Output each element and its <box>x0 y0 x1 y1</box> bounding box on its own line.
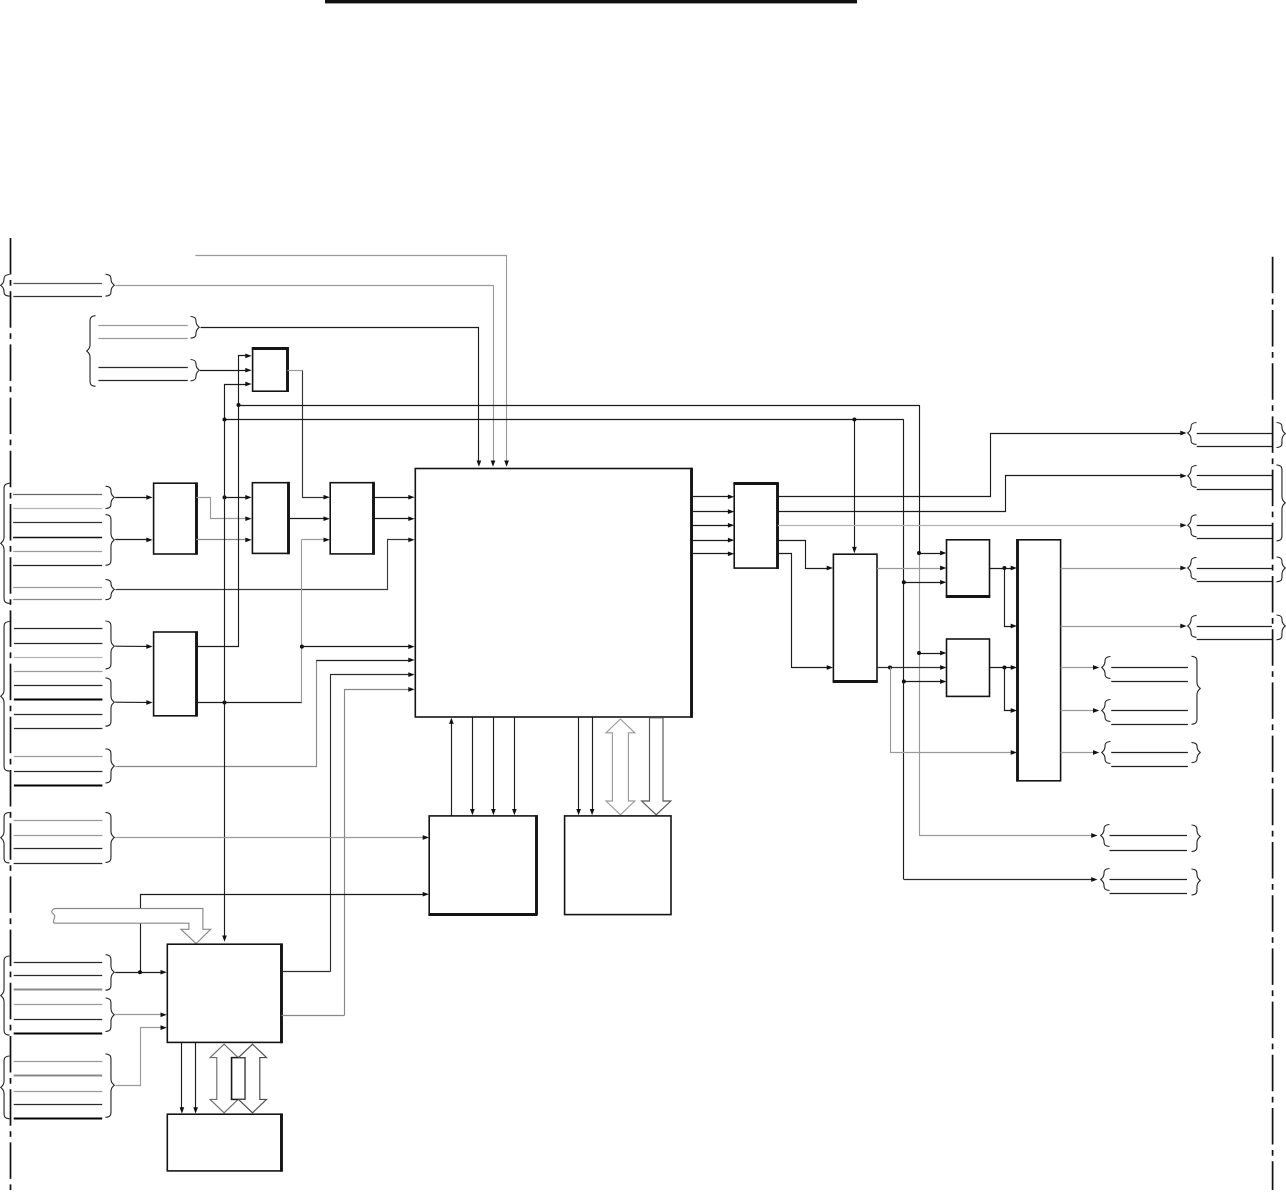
connector group CN-D extra thick wire <box>14 785 103 787</box>
wire: record sw riser to main in7 (gray) <box>345 690 410 1016</box>
wire: riser B branch to demod in1 <box>225 497 248 499</box>
arrow into main block in5 <box>408 658 414 663</box>
arrow into main block in1 <box>408 495 414 500</box>
wire: rail405 tail to G9 (gray) <box>919 835 1092 837</box>
junction dot rail419/drum feed <box>852 418 856 422</box>
motor group G7 wires <box>1111 710 1188 712</box>
connector group CN-C wires <box>13 494 102 496</box>
block: mode select <box>429 816 536 915</box>
wire: CN-B2 to reset block <box>200 370 246 372</box>
wire: main block to servo ctl out5 <box>692 553 730 555</box>
connector group CN-G closing brace <box>106 1054 115 1118</box>
connector group CN-A closing brace <box>106 274 115 296</box>
motor group G8 open brace <box>1102 742 1111 764</box>
wire: CN-D3 to riser (gray) <box>116 661 317 767</box>
junction dot capstan branch <box>1002 666 1006 670</box>
connector group CN-C sub brace 3 <box>106 579 115 599</box>
arrow into timer block in1 <box>146 644 152 649</box>
output group G3 wires <box>1197 525 1272 527</box>
wire: timer out2 <box>197 702 302 704</box>
wire: gray riser to key block in3 <box>302 539 325 541</box>
arrow to output group G4 <box>1180 566 1186 571</box>
connector group CN-F outer brace <box>1 956 10 1035</box>
bus arrow: main->data (hollow single) <box>642 718 671 815</box>
connector group CN-A outer brace <box>1 275 10 297</box>
arrow to motor group G6 <box>1093 665 1099 670</box>
wire: tuner out1 jog to demod (gray) <box>197 498 248 519</box>
junction dot riserB/timer out2 <box>223 701 227 705</box>
output group G4 open brace <box>1188 557 1197 579</box>
arrow to output group G1 <box>1180 431 1186 436</box>
block: tuner / timer <box>154 483 197 554</box>
wire: riser B long drop <box>224 420 226 937</box>
bus arrow: mech<->motor right (double) <box>239 1044 267 1113</box>
wire: CN-C2 to tuner block <box>115 539 147 541</box>
arrow into demod in2 <box>245 516 251 521</box>
wire: mech out1 riser (to main in6) <box>282 971 331 973</box>
wire: driver out3 to G6 (gray) <box>1061 667 1094 669</box>
wire: capstan branch drop <box>1005 668 1013 711</box>
wire: mechacon out1 to loading driver (gray) <box>877 568 942 570</box>
wire: CN-C3 long line to main block (y=589.5) <box>116 540 410 590</box>
output groups G2+G3 close brace <box>1277 465 1286 541</box>
connector group CN-E outer brace <box>1 812 10 863</box>
connector group CN-B wires <box>98 325 187 327</box>
wire: CN-D1 to timer block <box>115 645 147 647</box>
output group G4 close brace <box>1277 557 1286 582</box>
arrow into mech block in2 <box>161 1012 167 1017</box>
wire: rail419 branch to capstan drv in3 <box>904 681 942 683</box>
block: motor / solenoid <box>167 1114 281 1171</box>
title underline <box>325 0 857 3</box>
arrow into mode block top 3 <box>512 809 517 815</box>
connector group CN-F sub brace 2 <box>106 998 115 1032</box>
output group G2 wires <box>1197 475 1272 477</box>
arrow into loading drv in2 <box>940 566 946 571</box>
wire: rail419 branch to loading drv in3 <box>904 582 942 584</box>
wire: mechacon out2 to capstan driver <box>877 667 942 669</box>
arrow into reset block in2 <box>245 368 251 373</box>
connector group CN-A wires <box>13 283 102 285</box>
arrow into driver block in2 <box>1011 624 1017 629</box>
connector group CN-C sub brace 1 <box>106 486 115 508</box>
sensor group G9 close brace <box>1192 825 1201 852</box>
rail 405 drop gray tail <box>919 553 921 836</box>
output group G4 wires <box>1197 568 1272 570</box>
wire: CN-C1 to tuner block <box>115 497 147 499</box>
rail 419 drop at right <box>903 420 905 880</box>
wire: servo out1 to right corner <box>778 434 1182 497</box>
junction dot loading branch <box>1002 566 1006 570</box>
wire: boxA output up into main block <box>451 723 453 816</box>
wire: CN-D2 to timer block <box>115 701 147 703</box>
block: system control microprocessor <box>415 469 692 718</box>
junction dot riserB/demod feed <box>223 495 227 499</box>
arrow to sensor group G9 <box>1091 833 1097 838</box>
wire: branch drop to drum block (gray) <box>891 668 1013 753</box>
arrow into mech block in3 <box>161 1025 167 1030</box>
junction dot mechacon out2 branch <box>888 666 892 670</box>
wire: riser B to reset block in3 <box>225 385 246 420</box>
wire: driver out2 to G5 (gray) <box>1061 626 1181 628</box>
arrow into servo ctl in2 <box>728 509 734 514</box>
arrow into tuner block in1 <box>146 495 152 500</box>
bus arrow: main<->data (gray double) <box>606 719 635 815</box>
wire: CN-B1 to main block top <box>201 328 479 462</box>
wire: main block down to data block 2 <box>592 717 594 811</box>
wire: driver out5 to G8 (gray) <box>1061 752 1094 754</box>
connector group CN-D sub brace 1 <box>106 621 115 669</box>
wire: branch to main block in4 <box>302 646 410 648</box>
motor groups G6+G7 close brace <box>1192 656 1201 724</box>
block: reset IC <box>253 348 288 391</box>
arrow into main block in3 <box>408 537 414 542</box>
arrow into key block in2 <box>324 516 330 521</box>
arrow into mode block top 1 <box>470 809 475 815</box>
wire: CN-F2 to mech block (gray) <box>115 1014 161 1016</box>
wire: key block out2 to main block <box>374 518 410 520</box>
wire: CN-F1 to mech block <box>115 972 161 974</box>
output group G5 close brace <box>1277 615 1286 640</box>
arrow into demod in3 <box>245 538 251 543</box>
arrow into main block top (285 line) <box>491 461 496 467</box>
arrow into motor block 1 <box>180 1107 185 1113</box>
block: demodulator <box>252 483 288 554</box>
arrow into main block top (255 line) <box>504 461 509 467</box>
arrow into mechacon in2 <box>827 665 833 670</box>
arrow into demod in1 <box>245 495 251 500</box>
arrow into capstan drv in2 <box>940 665 946 670</box>
arrow into driver block in5 <box>1011 750 1017 755</box>
junction dot rail405/loading <box>917 551 921 555</box>
arrow into capstan drv in1 <box>940 651 946 656</box>
wire: main block to servo ctl out2 <box>692 511 730 513</box>
output group G1 wires <box>1197 433 1272 435</box>
wire: reset block output (gray) <box>288 370 303 372</box>
arrow into mode block top 2 <box>491 809 496 815</box>
output group G5 open brace <box>1188 615 1197 637</box>
arrow into key block in1 <box>324 495 330 500</box>
block: data memory <box>565 816 671 915</box>
wire: connector rail to mode block (gray, y=837.5) <box>115 837 424 839</box>
wire: driver out1 to G4 (gray) <box>1061 568 1181 570</box>
arrow into main block in2 <box>408 516 414 521</box>
arrow into data block top 2 <box>590 809 595 815</box>
wire: servo out2 to right corner <box>778 476 1182 512</box>
connector group CN-B sub brace 1 <box>191 317 200 339</box>
connector group CN-D wires <box>14 628 103 630</box>
sensor group G10 close brace <box>1192 869 1201 895</box>
wire: riser A to reset block in1 <box>239 356 246 406</box>
arrow to sensor group G10 <box>1091 877 1097 882</box>
arrow into mechacon top <box>852 547 857 553</box>
left page border (dash-dot) <box>10 238 12 1193</box>
block: motor drive output <box>1017 540 1060 781</box>
junction dot rail405/capstan <box>917 651 921 655</box>
arrow into driver block in4 <box>1011 708 1017 713</box>
wire: loading drv to driver block <box>990 568 1013 570</box>
motor group G6 wires <box>1111 667 1188 669</box>
arrow into mechacon in1 <box>827 566 833 571</box>
sensor group G10 open brace <box>1101 869 1110 891</box>
wire: rail405 branch to loading drv in1 <box>919 553 942 555</box>
wire: unterminated gray feed (y=255.5) <box>196 256 507 462</box>
sensor group G9 open brace <box>1101 825 1110 847</box>
output group G2 open brace <box>1188 465 1197 487</box>
motor group G7 open brace <box>1102 700 1111 722</box>
arrow into main block in6 <box>408 672 414 677</box>
wire: mech to motor block 2 <box>195 1042 197 1108</box>
arrow up into main block bottom <box>449 718 454 724</box>
block: servo control <box>734 484 778 569</box>
connector group CN-E closing brace <box>106 812 115 862</box>
arrow into mode block in2 <box>423 892 429 897</box>
arrow into main block top (327 line) <box>477 461 482 467</box>
junction dot rail419/riserB <box>223 418 227 422</box>
arrow into tuner block in2 <box>146 538 152 543</box>
sensor group G9 wires <box>1110 835 1188 837</box>
arrow to output group G2 <box>1180 474 1186 479</box>
wire: rail405 branch to capstan drv in1 <box>919 653 942 655</box>
rail: servo control (y=405) <box>239 405 920 407</box>
wire: demod to key block <box>288 518 324 520</box>
block: mechanism control <box>167 944 281 1042</box>
wire: drop into mechacon block top <box>854 420 856 550</box>
arrow into servo ctl in5 <box>728 551 734 556</box>
arrow to motor group G8 <box>1093 750 1099 755</box>
junction dot rail405/riserA <box>237 403 241 407</box>
arrow into servo ctl in4 <box>728 538 734 543</box>
connector group CN-D sub brace 3 <box>106 749 115 783</box>
wire: capstan drv to driver block <box>990 667 1013 669</box>
junction dot rail419/loading <box>902 580 906 584</box>
wire: gray riser x=302 <box>301 540 303 703</box>
junction dot CN-F1 / mode rail <box>138 970 142 974</box>
arrow into loading drv in3 <box>940 580 946 585</box>
arrow into driver block in3 <box>1011 665 1017 670</box>
wire: reset output drop to key block <box>303 371 325 498</box>
arrow to motor group G7 <box>1093 708 1099 713</box>
arrow into timer block in2 <box>146 700 152 705</box>
connector group CN-G wires <box>14 1061 103 1063</box>
wire: rail419 tail to G10 <box>904 879 1092 881</box>
arrow to output group G3 <box>1180 523 1186 528</box>
connector group CN-E wires <box>14 820 103 822</box>
bus shaft: mech<->motor middle <box>232 1058 246 1100</box>
motor group G6 open brace <box>1102 657 1111 679</box>
arrow into motor block 2 <box>193 1107 198 1113</box>
block: key input <box>330 483 374 554</box>
wire: mech out2 riser (to main in7, gray) <box>282 1015 345 1017</box>
wire: long black rail to mode block (y=894.2) <box>141 895 425 973</box>
wire: servo out4 jog to mechacon <box>778 541 829 569</box>
wire: main block down to mode block 3 <box>514 717 516 811</box>
wire: CN-A to video block (gray) <box>116 286 494 462</box>
wire: key block out1 to main block <box>374 497 410 499</box>
wire: servo out3 gray long line <box>778 525 1181 527</box>
wire: tuner out2 to demod (gray) <box>196 539 247 541</box>
arrow into servo ctl in1 <box>728 494 734 499</box>
arrow into mech block in1 <box>161 970 167 975</box>
connector group CN-C outer brace <box>1 483 10 603</box>
output group G5 wires <box>1197 626 1272 628</box>
connector group CN-B outer brace <box>87 316 96 387</box>
wire: main block to servo ctl out3 <box>692 525 730 527</box>
arrow into capstan drv in3 <box>940 679 946 684</box>
connector group CN-B sub brace 2 <box>191 360 200 381</box>
motor group G8 wires <box>1111 752 1188 754</box>
wire: main block to servo ctl out1 <box>692 496 730 498</box>
arrow into reset block in3 <box>245 382 251 387</box>
bus arrow: mech<->motor left (gray double) <box>210 1044 238 1113</box>
wire: timer out1 to riser A <box>197 406 239 647</box>
block: mechacon <box>833 554 877 681</box>
arrow into reset block in1 <box>245 354 251 359</box>
connector group CN-D outer brace <box>1 622 10 772</box>
wire: CN-G to mech block in3 (gray) <box>116 1028 162 1086</box>
wire: riser into main block in5 <box>316 660 409 662</box>
arrow into mode block in1 <box>423 835 429 840</box>
rail: system control (y=419.5) <box>225 419 904 421</box>
wire: mech to motor block 1 <box>181 1042 183 1108</box>
wire: main block down to mode block 1 <box>472 717 474 811</box>
arrow into key block in3 <box>324 537 330 542</box>
connector group CN-C sub brace 2 <box>106 515 115 566</box>
sensor group G10 wires <box>1110 879 1188 881</box>
connector group CN-F wires <box>14 962 103 964</box>
block: capstan motor driver <box>947 639 990 696</box>
hollow flag arrow into mech block <box>52 909 211 944</box>
output group G1 open brace <box>1188 423 1197 445</box>
wire: driver out4 to G7 (gray) <box>1061 710 1094 712</box>
wire: cassette sw riser to main in6 <box>331 675 410 972</box>
output group G3 open brace <box>1188 515 1197 537</box>
junction dot rail419/capstan <box>902 680 906 684</box>
motor group G8 close brace <box>1192 742 1201 762</box>
wire: main block to servo ctl out4 <box>692 540 730 542</box>
arrow into loading drv in1 <box>940 551 946 556</box>
output group G1 close brace <box>1277 423 1286 448</box>
arrow into data block top 1 <box>576 809 581 815</box>
wire: main block down to mode block 2 <box>493 717 495 811</box>
wire: main block down to data block 1 <box>578 717 580 811</box>
block: timer / display <box>154 632 197 716</box>
arrow into main block in7 <box>408 687 414 692</box>
arrow riser B into mech block top <box>222 936 227 942</box>
wire: servo out5 jog to mechacon <box>778 554 829 668</box>
rail 405 drop at right <box>919 405 921 553</box>
arrow into main block in4 <box>408 644 414 649</box>
arrow into servo ctl in3 <box>728 523 734 528</box>
wire: loading branch drop <box>1005 569 1013 627</box>
right page border (dash-dot) <box>1272 257 1274 1190</box>
junction dot gray riser / main in4 <box>300 645 304 649</box>
connector group CN-G outer brace <box>1 1056 10 1119</box>
connector group CN-D sub brace 2 <box>106 678 115 726</box>
arrow into driver block in1 <box>1011 566 1017 571</box>
block: loading motor driver <box>947 540 990 596</box>
connector group CN-F sub brace 1 <box>106 955 115 991</box>
arrow to output group G5 <box>1180 624 1186 629</box>
